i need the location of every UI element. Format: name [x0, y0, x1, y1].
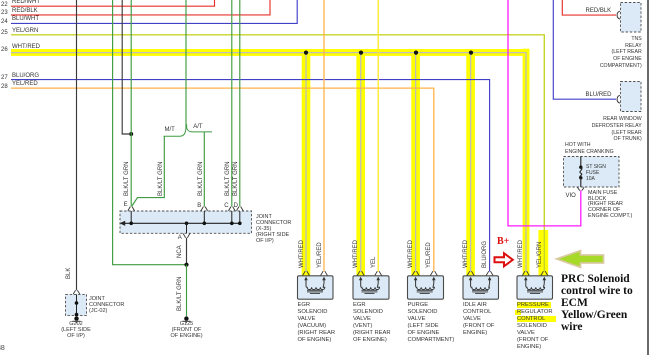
- wire label RED/BLK: [12, 8, 38, 14]
- EGR solenoid valve (vent): [353, 271, 389, 299]
- rotated valve wire label WHT/RED: [408, 240, 414, 268]
- circuit number 28: [1, 84, 8, 90]
- circuit number 27: [1, 75, 8, 81]
- wire BLK/LT GRN feeder to M/T-A/T fork: [185, 0, 187, 125]
- X-35 terminal A (output): [183, 222, 190, 238]
- wire 28 YEL/RED to purge solenoid valve: [11, 88, 434, 271]
- M/T A/T branch labels: [165, 127, 175, 133]
- junction dots on WHT/RED bus: [304, 51, 473, 55]
- X-35 bus bar with arrow: [120, 221, 241, 226]
- rotated valve wire label YEL/GRN: [537, 241, 543, 267]
- wire RED/BLK to TNS relay: [562, 0, 616, 15]
- WHT/RED drop wires to valves (gray cores): [306, 53, 471, 272]
- wire 22 RED/WHT: [11, 0, 215, 6]
- wire BLK jog to BLK/LT GRN: [122, 0, 129, 134]
- main fuse block box: [564, 157, 620, 188]
- yellow highlight band turning down to pressure regulator valve: [523, 49, 530, 276]
- wire 26 WHT/RED bus (gray core): [11, 53, 526, 272]
- wire 27 BLU/ORG to idle air control valve: [11, 80, 490, 272]
- rotated valve wire label WHT/RED: [299, 240, 305, 268]
- TNS relay terminal: [617, 11, 620, 19]
- rotated valve wire label YEL/RED: [426, 242, 432, 268]
- wire BLK/LT GRN upper segment to terminal E: [130, 0, 132, 134]
- B+ annotation: [497, 236, 509, 247]
- pressure regulator control solenoid valve caption (highlighted): [517, 302, 556, 351]
- wire BLK/LT GRN to terminal D: [239, 0, 241, 207]
- rotated label BLK/LT GRN: [198, 162, 204, 196]
- wire label RED/WHT: [12, 0, 40, 5]
- M/T branch bracket: [164, 124, 186, 136]
- wire label YEL/GRN: [12, 28, 38, 34]
- rotated label BLK: [66, 268, 72, 279]
- yellow highlight band drop to EGR vacuum valve: [302, 52, 311, 276]
- wire BLK/LT GRN to terminal E: [130, 134, 132, 207]
- idle air control valve: [463, 271, 499, 299]
- main fuse block caption: [588, 191, 632, 220]
- rotated label BLK/LT GRN: [158, 162, 164, 196]
- yellow highlight band drop to idle air valve: [466, 52, 475, 276]
- yellow highlight on YEL/GRN PRC solenoid wire: [538, 230, 548, 276]
- wire BLK/LT GRN A/T branch to terminal B: [203, 132, 205, 207]
- wire BLK/LT GRN to ground G125: [186, 265, 188, 317]
- label RED/BLK: [586, 8, 612, 14]
- X-35 terminal D: [236, 207, 243, 226]
- joint connector JC-02 box: [66, 294, 87, 315]
- terminal letters E B C D A: [124, 202, 128, 208]
- page number: [0, 346, 5, 352]
- wire LT GRN to G125 junction: [113, 0, 185, 265]
- rotated valve wire label YEL: [371, 256, 377, 267]
- green pointer arrow to PRC solenoid wire: [557, 251, 604, 268]
- red B+ block arrow: [495, 253, 513, 266]
- small highlight smudge on REGULATOR row: [515, 310, 521, 315]
- yellow highlight band drop to purge valve: [411, 52, 420, 276]
- TNS relay connector box: [621, 3, 642, 33]
- pressure regulator control solenoid valve: [517, 271, 553, 299]
- rotated valve wire label WHT/RED: [353, 240, 359, 268]
- junction dot NCA / LT GRN: [184, 263, 188, 267]
- EGR solenoid valve (vacuum): [298, 271, 334, 299]
- wire NCA from terminal A: [186, 238, 188, 265]
- wire BLU/RED to rear window defroster relay: [553, 0, 616, 99]
- label BLU/RED: [586, 92, 612, 98]
- X-35 terminal C: [228, 207, 235, 226]
- X-35 terminal B: [201, 207, 208, 226]
- rotated label BLK/LT GRN: [124, 162, 130, 196]
- rotated label BLK/LT GRN: [233, 162, 239, 196]
- ground G125 symbol: [182, 316, 190, 323]
- ground label G202: [45, 322, 107, 339]
- circuit number 26: [1, 47, 8, 53]
- wire label BLU/ORG: [12, 73, 39, 79]
- fuse ST SIGN 10A: [577, 157, 584, 191]
- circuit number 22: [1, 2, 8, 8]
- wire YEL to EGR vent valve: [377, 0, 379, 272]
- junction dot BLK to BLK/LT GRN: [129, 132, 133, 136]
- defroster relay terminal: [617, 95, 620, 103]
- wire label WHT/RED: [12, 44, 40, 50]
- hot with engine cranking note: [565, 142, 614, 155]
- wire BLK to JC-02: [76, 0, 78, 290]
- EGR solenoid valve (vent) caption: [353, 302, 391, 344]
- rear window defroster relay connector box: [621, 82, 642, 112]
- defroster relay caption: [592, 116, 642, 142]
- wire VIO from ST SIGN fuse: [508, 0, 581, 226]
- ground G202 symbol: [73, 316, 81, 323]
- X-35 terminal E: [128, 207, 135, 226]
- rotated valve wire label WHT/RED: [463, 240, 469, 268]
- ST SIGN fuse label: [586, 164, 606, 182]
- wire label YEL/RED: [12, 81, 38, 87]
- yellow highlight band drop to EGR vent valve: [356, 52, 365, 276]
- X-35 caption: [256, 214, 291, 244]
- yellow highlight band on WHT/RED bus wire (horizontal): [11, 49, 529, 56]
- joint connector X-35 box: [120, 211, 252, 233]
- rotated valve wire label BLU/ORG: [482, 240, 488, 267]
- wire BLK/LT GRN to terminal C: [231, 0, 233, 207]
- page border right edge: [647, 0, 649, 355]
- PRC solenoid note: [561, 273, 633, 333]
- wire label BLU/WHT: [12, 16, 39, 22]
- wire 24 BLU/WHT: [11, 0, 297, 23]
- purge solenoid valve: [408, 271, 444, 299]
- wire 25 YEL/GRN to PRC solenoid valve: [11, 35, 544, 272]
- rotated label BLK/LT GRN: [225, 162, 231, 196]
- rotated valve wire label WHT/RED: [518, 240, 524, 268]
- JC-02 entry terminal: [73, 290, 80, 315]
- purge solenoid valve caption: [408, 302, 455, 344]
- idle air control valve caption: [463, 302, 494, 337]
- label VIO: [566, 193, 576, 199]
- rotated label NCA: [177, 245, 183, 258]
- wire BLK/LT GRN M/T branch: [132, 136, 164, 206]
- A/T branch bracket: [187, 124, 212, 132]
- TNS relay caption: [600, 36, 642, 69]
- ground label G125: [156, 322, 218, 339]
- circuit number 23: [1, 10, 8, 16]
- JC-02 caption: [89, 296, 124, 315]
- circuit number 25: [1, 30, 8, 36]
- JC-02 junction dots: [75, 301, 79, 316]
- wire 23 RED/BLK: [11, 0, 270, 15]
- wire YEL/RED to EGR vacuum valve: [323, 0, 325, 272]
- rotated valve wire label YEL/RED: [317, 242, 323, 268]
- circuit number 24: [1, 19, 8, 25]
- rotated label BLK/LT GRN (ground wire): [177, 277, 183, 311]
- EGR solenoid valve (vacuum) caption: [298, 302, 336, 344]
